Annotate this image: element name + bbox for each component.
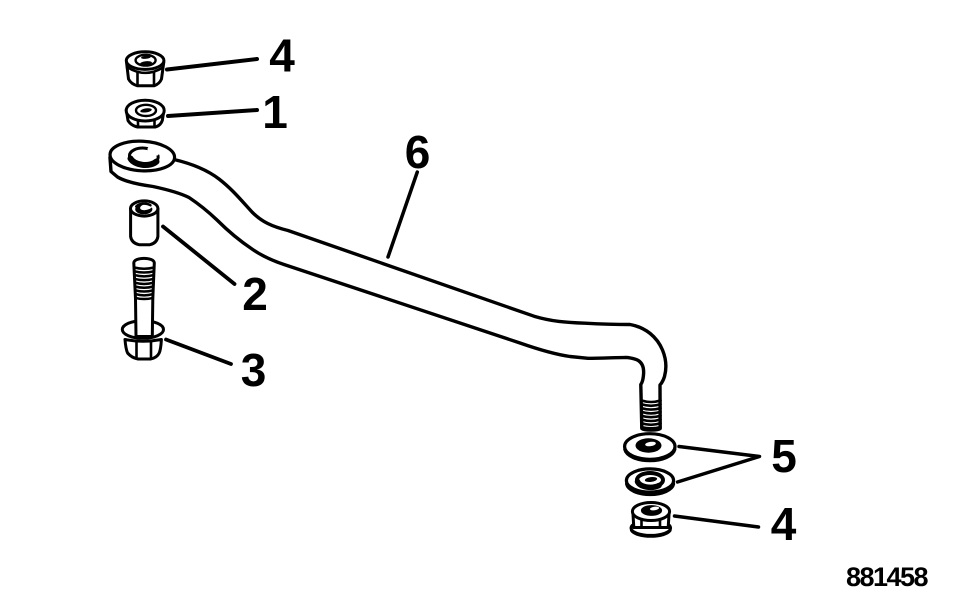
stud threads at rod right end xyxy=(642,401,661,429)
hex nut item 1 xyxy=(126,100,164,127)
svg-text:3: 3 xyxy=(241,344,267,396)
leader line item 3 xyxy=(166,340,231,365)
link rod item 6 body xyxy=(110,158,666,431)
washer item 5b (lower) xyxy=(626,469,673,495)
leader lines item 5 xyxy=(678,447,760,483)
svg-text:5: 5 xyxy=(771,430,797,482)
svg-text:1: 1 xyxy=(262,86,288,138)
leader line item 1 xyxy=(168,110,257,116)
leader line item 6 xyxy=(388,172,417,257)
svg-text:881458: 881458 xyxy=(846,562,929,592)
rod eye outer face xyxy=(109,140,175,173)
bolt item 3 xyxy=(122,258,163,359)
washer item 5a (upper) xyxy=(625,434,675,461)
svg-text:2: 2 xyxy=(242,268,268,320)
leader line item 2 xyxy=(163,227,235,285)
rod eye inner hole xyxy=(129,147,159,166)
leader line item 4 bottom xyxy=(675,516,759,527)
locknut item 4 (top left) xyxy=(126,52,164,86)
svg-text:4: 4 xyxy=(269,30,295,82)
leader line item 4 top xyxy=(167,59,257,70)
svg-text:4: 4 xyxy=(771,498,797,550)
spacer item 2 xyxy=(131,201,158,245)
flange nut item 4 (bottom) xyxy=(631,503,671,537)
svg-text:6: 6 xyxy=(405,126,431,178)
